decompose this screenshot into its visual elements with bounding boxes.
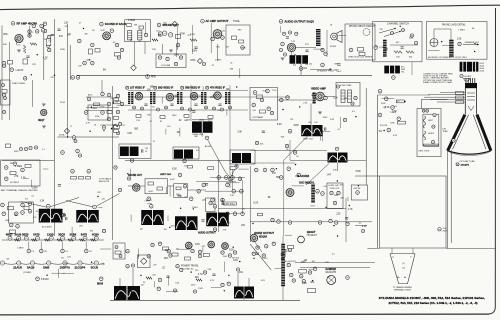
terminal V5 pin b [288,31,291,34]
svg-text:ALIGN: ALIGN [205,145,211,148]
resistor R34 [396,100,404,103]
svg-text:150V: 150V [293,125,299,127]
transformer T20 vert [206,213,229,227]
terminal T20 adj [213,228,216,231]
coil L10 horiz yoke [424,131,426,140]
wire CRT grid 5 [437,101,465,103]
svg-text:220: 220 [102,199,105,201]
svg-text:250V: 250V [210,97,216,99]
resistor R4 [30,43,37,46]
terminal lc 8 [9,223,13,227]
terminal vid c1 [285,144,288,147]
wire agc h2 [86,110,113,112]
terminal flyback 5 [300,275,303,278]
capacitor C19 [212,274,215,275]
diode X1 [172,21,177,26]
thermistor bar [424,144,439,146]
svg-text:3.3K: 3.3K [207,269,212,271]
svg-text:27K: 27K [59,36,64,38]
terminal power 15 [228,254,231,257]
terminal V3b [163,31,167,35]
picture tube faceplate inner [450,153,490,156]
svg-text:560: 560 [84,33,87,35]
wire trapezoid leg 1 [391,248,393,254]
resistor R10a [127,24,132,27]
terminal sync area 1 [147,197,151,201]
terminal power 13 [203,271,206,274]
terminal sound det circle [157,23,161,27]
wire T3 to bus [300,64,302,76]
tube V12 sound output [132,184,140,192]
terminal flyback 6 [302,280,305,283]
svg-text:47-48: 47-48 [480,71,485,73]
capacitor IF C11 [170,104,173,105]
transformer T5 jack [449,40,453,57]
terminal st 1 [316,189,320,193]
svg-text:100: 100 [167,126,170,128]
terminal yoke top 1 [422,109,425,112]
transformer T7 IF input a [128,92,130,104]
junction [337,235,338,236]
svg-text:3.3K: 3.3K [175,283,180,285]
terminal power 11 [191,249,194,252]
svg-text:82: 82 [160,121,162,123]
svg-text:.047: .047 [396,42,400,44]
terminal sync 2 [101,92,105,96]
svg-text:220: 220 [374,46,377,48]
wire sync h2 [205,190,244,192]
resistor R9 [115,53,121,57]
svg-text:18: 18 [139,41,141,43]
svg-text:.047: .047 [153,264,157,266]
tube socket heater row1 7 [72,236,76,240]
right border line [488,8,496,314]
svg-text:PICTURE TUBE: PICTURE TUBE [460,161,476,163]
terminal tuner in 3 [3,110,6,113]
terminal heater sub 2 [39,249,43,253]
resistor R23 [114,126,120,129]
svg-text:12K: 12K [308,122,312,124]
wire agc h3 [100,124,125,126]
box hold control [206,198,216,212]
capacitor bypass [58,185,61,186]
resistor R10 [176,35,181,39]
picture tube neck right [476,88,478,114]
wire stub [130,215,132,222]
resistor R21 [114,101,121,104]
terminal audio 2 [166,57,169,60]
svg-text:4.7K: 4.7K [86,123,91,125]
wire jack to T5 [434,29,451,40]
tube socket r3 3 [30,261,34,265]
terminal osc d [41,29,44,32]
terminal IF bias 1 [133,106,136,109]
svg-text:3.3K: 3.3K [237,131,242,133]
capacitor C14 [142,149,143,152]
capacitor bypass [192,111,195,112]
svg-text:PHONO JACK DETAIL: PHONO JACK DETAIL [442,24,466,27]
wire stub [71,227,73,236]
wire flyback top [282,236,284,244]
svg-text:AGC: AGC [88,94,93,97]
junction [299,106,300,107]
wire CRT grid 4 [430,99,465,101]
terminal yoke 1 [433,114,436,117]
terminal IF label circle 1 [126,86,129,89]
wire stub [239,168,249,170]
junction [46,275,47,276]
terminal flyback 2 [287,263,290,266]
svg-text:0.1: 0.1 [42,149,45,151]
terminal power 19 [221,283,224,286]
wire T21 down [337,163,339,172]
terminal br 2 [354,96,357,99]
junction [383,130,384,131]
tube V17 rectifier c [222,243,229,250]
svg-text:1B3GT: 1B3GT [307,230,316,234]
terminal osc b [28,34,31,37]
svg-text:220: 220 [327,277,330,279]
svg-text:1.5K: 1.5K [136,120,141,122]
wire stub [165,187,167,194]
terminal dy 1 [330,191,333,194]
terminal R6 top [83,61,87,65]
terminal det load [117,56,120,59]
svg-text:HORIZ: HORIZ [465,76,472,78]
terminal horiz 3 [271,168,275,172]
junction [180,208,181,209]
svg-text:SPEAKER FIELD: SPEAKER FIELD [317,70,335,73]
terminal lc 6 [28,202,32,206]
picture tube base cap [465,83,477,88]
wire T23 lead a [237,272,239,287]
speaker LS1 [331,31,342,43]
svg-text:5AT8: 5AT8 [81,232,88,236]
svg-text:5%: 5% [217,110,220,112]
wire boost 2 [300,267,370,269]
wire horiz column [250,166,252,242]
terminal flyback 8 [313,267,316,270]
arrow horiz [295,175,299,177]
terminal IF bias 2 [141,107,144,110]
picture tube funnel right inner2 [473,115,486,150]
svg-text:68: 68 [92,30,94,32]
svg-text:4.7K: 4.7K [198,274,203,276]
junction [404,101,405,102]
terminal power 3 [147,255,150,258]
tube socket heater row1 1 [8,236,12,240]
tube V10 4th video IF [214,92,222,100]
wire diagonal video feed [208,140,231,178]
svg-text:HV RECT: HV RECT [307,235,318,237]
resistor R18 [406,51,414,54]
resistor R3 [8,61,13,65]
terminal sync area 3 [178,173,182,177]
wire sync column [218,160,220,232]
transformer T10 3rd IF b [204,92,206,104]
terminal T23 in [236,268,239,271]
svg-text:4BQ7: 4BQ7 [6,232,13,236]
terminal dc 1 [4,166,8,170]
tube socket r3 7 [94,261,98,265]
diode X3 [64,128,69,133]
wire stub [338,34,346,36]
capacitor bypass [401,47,404,48]
resistor R57 [157,187,163,190]
resistor R39 [79,177,84,180]
wire stub [285,234,292,236]
ground video [318,112,322,114]
svg-text:5%: 5% [152,107,155,109]
yoke plug section 2 [467,62,472,72]
wire audio v [326,30,328,57]
wire V4 down [217,44,219,61]
junction [224,290,225,291]
wire V3 to audio box [162,44,164,54]
terminal T2 sec 2 [324,52,327,55]
svg-text:DAMPER: DAMPER [326,268,337,271]
ground tuner column [42,104,46,106]
svg-text:UHF: UHF [3,34,8,36]
wire stub [165,129,167,135]
box vert osc network [145,179,168,194]
terminal fuse [438,228,441,231]
svg-text:3.3K: 3.3K [21,178,26,180]
capacitor bypass [262,131,265,132]
resistor heater chain 7 [91,239,96,242]
wire stub [285,249,287,257]
picture tube base pins [466,78,475,83]
picture tube funnel right side [477,115,491,151]
wire stub [138,249,140,258]
junction [441,41,442,42]
wire sync h1 [210,177,245,179]
transformer T16 vert blocking [39,209,63,223]
resistor R1 [23,45,26,53]
svg-text:2.2K: 2.2K [362,226,367,228]
terminal audio output circle [279,20,283,24]
svg-text:RFB: RFB [151,77,156,79]
diode X2 [197,58,202,63]
terminal heater sub 3 [61,249,65,253]
wire stub [339,117,341,128]
terminal sync 1 [87,97,91,101]
svg-text:DM8: DM8 [43,266,49,270]
resistor heater chain 1 [15,239,20,242]
resistor R22 [107,111,112,114]
terminal T16 side [62,213,65,216]
junction [113,102,114,103]
svg-text:(2): (2) [403,263,406,265]
wire IF cathode line [128,109,248,111]
terminal power 18 [157,287,160,290]
wire pointer T17 left arm [66,201,94,208]
wire HV cage diagonal 1 [250,244,271,270]
resistor R2 [23,59,28,64]
junction [349,205,350,206]
svg-text:1ST VIDEO IF: 1ST VIDEO IF [130,88,145,90]
box ratio detector T1 [125,20,151,42]
terminal ct 5 [260,98,263,101]
wire pointer T17 right arm [96,194,120,207]
resistor R61 bleeder [308,289,316,293]
wire stub [154,281,156,287]
terminal sync 9 [113,124,117,128]
terminal sync area 10 [231,176,235,180]
box bias network [113,243,125,259]
terminal T12 adj [130,159,133,162]
transformer T9 2nd IF a [177,92,179,104]
capacitor bypass [163,23,166,24]
svg-text:5AQ5: 5AQ5 [27,266,35,270]
svg-text:.047: .047 [301,127,305,129]
capacitor IF C13 [218,104,221,105]
transformer T10 3rd IF a [201,92,203,104]
resistor R16 [359,53,365,56]
wire T23 leg [243,287,245,301]
tube socket r3 1 [0,261,4,265]
box phono input circuit [345,24,375,60]
box tone network [226,25,250,55]
junction [191,271,192,272]
terminal sound IF circle [100,22,104,26]
svg-text:18: 18 [94,125,96,127]
wire switch contact 1 [379,29,395,34]
wire b+ boost bus [295,262,375,264]
terminal bias a [115,246,118,249]
terminal V11 plate [324,96,328,100]
terminal IF bias 10 [229,106,232,109]
box vert integrator [174,184,188,198]
terminal hv cage 2 [265,245,268,248]
svg-text:3.3K: 3.3K [392,111,397,113]
tube V9 3rd video IF [190,92,198,100]
capacitor bypass [337,64,340,65]
resistor R43 [24,207,29,210]
terminal bias2 [343,118,346,121]
svg-text:4.5MC TRAP: 4.5MC TRAP [340,84,352,87]
terminal horiz circle [460,74,463,77]
picture tube neck left [464,88,466,114]
wire stub [169,186,171,197]
svg-text:1 MEG: 1 MEG [15,166,22,168]
terminal V3a [158,32,162,36]
capacitor bypass [281,258,284,259]
terminal V4 plate [221,36,225,40]
terminal agc r2 [120,102,123,105]
wire flyback riser [283,160,285,236]
picture tube faceplate [448,151,491,154]
junction [169,227,170,228]
wire stub [313,48,323,50]
junction det [130,39,131,40]
terminal chassis a [173,289,176,292]
resistor R56 [148,182,154,185]
terminal crt net 1 [378,89,382,93]
terminal V3c [168,33,172,37]
terminal ft 1 [2,84,5,87]
svg-text:POWER TRANS: POWER TRANS [181,265,199,268]
wire stub [176,45,178,57]
terminal sw 4 [414,41,417,44]
wire tuner left edge [1,26,3,121]
diode X1b [131,65,137,71]
box video peaking [230,150,255,164]
svg-text:1.5K: 1.5K [78,65,83,67]
wire stub [211,287,221,289]
transformer terminal guide trapezoid [390,254,415,284]
svg-text:100: 100 [164,229,167,231]
svg-text:5%: 5% [379,131,382,133]
resistor IF R26 [160,116,165,119]
wire stub [382,98,395,100]
wire diagonal T21 [306,164,329,186]
svg-text:6CB6: 6CB6 [92,232,99,236]
wire stub [167,276,169,286]
svg-text:220K: 220K [60,49,66,51]
transformer T14 peaking [232,153,251,163]
terminal ft 2 [4,97,7,100]
terminal power 5 [158,242,161,245]
terminal tuner in 1 [3,64,6,67]
connector wedge [464,78,471,81]
svg-text:4TH VIDEO IF: 4TH VIDEO IF [210,87,225,90]
coil L9 vert yoke [424,116,426,128]
resistor R13 [190,39,197,42]
svg-text:250V: 250V [199,120,204,122]
svg-text:5%: 5% [61,258,64,260]
terminal fb 1 [71,169,75,173]
terminal sync area 18 [226,212,230,216]
svg-text:VERT HOLD: VERT HOLD [225,204,236,206]
svg-text:3.3K: 3.3K [333,97,338,99]
ground det [169,50,173,52]
svg-text:PHONO INPUT CIRCUIT: PHONO INPUT CIRCUIT [349,26,376,28]
svg-text:47: 47 [150,121,152,123]
svg-text:10%: 10% [67,257,71,259]
junction [333,225,334,226]
capacitor C2 [26,56,29,57]
transformer T23 power right [234,287,254,299]
terminal ct 6 [270,111,273,114]
terminal sync 5 [107,102,111,106]
junction [83,28,84,29]
terminal delay out [205,136,208,139]
terminal power 4 [151,243,154,246]
resistor IF R28 [208,116,213,119]
svg-text:21DA: 21DA [59,134,65,137]
wire jack top [433,29,435,39]
terminal flyback 7 [308,271,311,274]
terminal V2 grid [91,43,95,47]
terminal hz row 5 [329,219,332,222]
svg-text:150V: 150V [198,288,203,290]
terminal IF bias 6 [189,108,192,111]
tube V2 sound IF [103,32,111,40]
capacitor IF C12 [194,104,197,105]
wire stub [147,203,152,205]
tube socket r3 5 [63,261,67,265]
grid resistor G3 [456,101,464,104]
wire delay down [201,133,203,137]
wire B+ bus [77,74,372,76]
svg-text:5AT8: 5AT8 [33,232,40,236]
wire boost rail [250,221,372,223]
tube V19 hv rectifier [298,236,305,243]
terminal det out [120,48,123,51]
terminal lc 1 [1,203,5,207]
resistor R37 [25,165,31,168]
